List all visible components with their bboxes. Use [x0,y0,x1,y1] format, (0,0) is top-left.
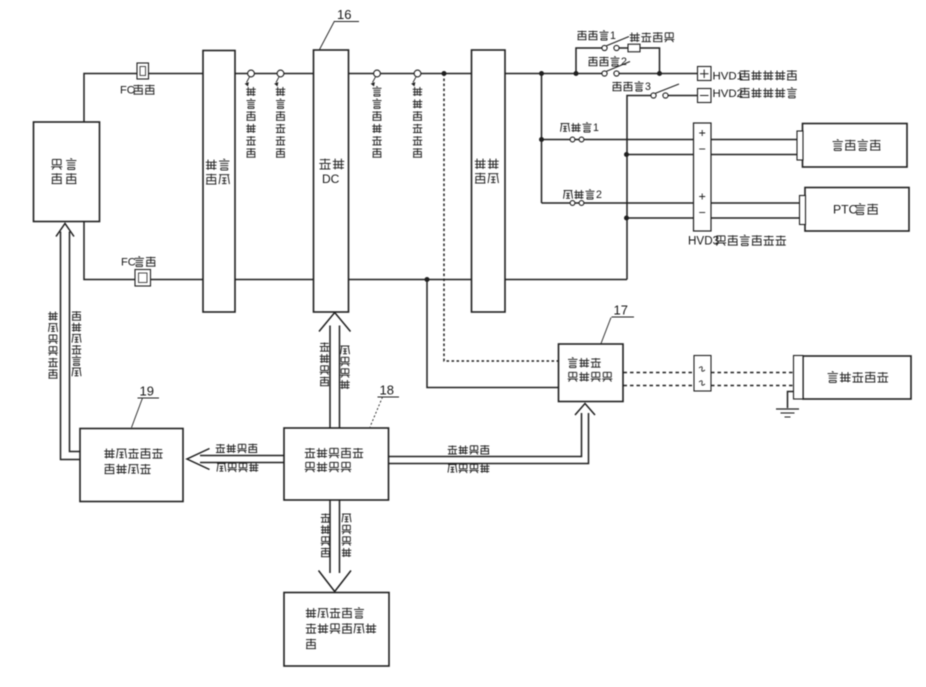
label 继电器2 [589,56,628,68]
relay K2 contact [602,62,630,77]
LV supply arrow control module to insulation module [187,449,284,470]
label 17 leader [601,318,611,344]
svg-text:HVD2: HVD2 [713,88,744,100]
vertical label 输入电流检测 [276,87,286,157]
svg-text:PTC: PTC [833,202,858,216]
wire motor connector to motor phase A (dashed) [711,372,793,374]
output filter label 输出滤波 [475,159,499,184]
FC negative connector [135,270,151,287]
FC positive connector [137,63,149,79]
LV supply arrow control module to compressor controller [389,404,596,464]
svg-text:16: 16 [337,7,351,22]
label 16 leader [320,21,335,50]
junction negative bus / compressor tap [425,277,430,282]
wire motor ground lead [788,392,795,409]
vertical label 输入电压检测 [246,87,256,157]
controller label 空压机控制模块 [568,358,613,382]
wire fuse F1 feed to water pump [542,139,799,141]
junction HVD3 feed / fuse F1 line [539,137,544,142]
HVD3 auxiliary connector [694,123,712,231]
HVD2 connector (-) [698,89,712,103]
junction negative riser / PTC return [624,216,629,221]
wire water pump return [627,154,799,156]
vertical label 低压配电 (boost arrow) [320,343,330,386]
label 19 [138,384,160,399]
wire HVD3 feed drop [541,74,543,204]
vertical label 母线电压检测 [372,87,382,158]
label FC负极 [121,257,155,269]
svg-text:19: 19 [140,384,154,399]
PTC supply box [805,188,909,232]
label 低压配电 (to U17) [448,445,490,454]
fuse F1 [570,137,584,142]
air compressor motor box [803,356,911,399]
label 通讯控制 (to U19) [217,463,259,472]
label 低压配电 (to U19) [216,444,258,453]
label 继电器1 [578,30,617,42]
label 熔断器1 [561,122,600,134]
wire negative tap to air-compressor controller [427,280,559,388]
PTC plug [800,196,806,225]
wire precharge branch [576,48,660,74]
label HVD2高压输出负 [713,88,797,100]
input current sense probe [275,70,284,86]
wire motor connector to motor phase B (dashed) [711,385,793,387]
fuse F2 [570,201,584,206]
water pump label 水泵供电 [833,140,881,151]
LV supply arrow control module to boost DC [319,313,351,429]
label FC正极 [120,85,154,97]
LV supply arrow control module to other LV equipment [319,500,352,592]
wire controller to motor connector phase A (dashed) [624,372,695,374]
svg-text:3: 3 [645,81,651,93]
air compressor controller box U17 [559,344,624,402]
label 16 [334,7,359,22]
svg-text:FC: FC [121,257,136,269]
label HVD3辅助供电接口 [688,234,786,247]
junction positive bus / precharge branch right [657,71,662,76]
wire positive tap to air-compressor controller (dashed) [444,74,559,362]
monitor label 绝缘检测与电堆巡检 [104,448,163,474]
vertical label 通讯控制 (down arrow) [342,514,352,557]
label HVD1高压输出正 [713,70,797,82]
output current sense probe [412,70,421,86]
label 17 [612,303,635,318]
label 熔断器2 [564,189,603,201]
relay K3 contact [651,84,679,98]
LV distribution control box U18 [284,428,389,500]
junction positive bus / compressor tap [442,71,447,76]
boost DC label 升压DC [319,159,344,186]
vertical label 绝缘阻抗检测 [48,312,58,379]
wire PTC return [627,217,802,219]
svg-text:2: 2 [621,56,627,68]
precharge resistor [628,44,640,52]
HVD1 connector (+) [698,67,712,81]
label 18 leader [370,397,383,427]
junction positive bus / HVD3 feed [539,71,544,76]
label 19 leader [132,398,143,428]
svg-text:18: 18 [380,383,394,398]
svg-text:DC: DC [322,172,340,186]
other LV equipment box [284,593,389,667]
other LV equipment label [306,608,377,649]
harness arrow stack-monitor to fuel cell [56,224,80,460]
motor plug [794,356,804,400]
wire negative riser to relay K3 [627,96,651,280]
water pump supply box [803,124,908,168]
input voltage sense probe [246,70,255,86]
label 通讯控制 (to U17) [448,464,490,473]
input filter box [203,51,235,313]
input filter label 输入滤波 [206,159,230,184]
bus voltage sense probe [372,70,381,86]
junction positive bus / precharge branch left [574,71,579,76]
motor phase connector [694,356,711,392]
vertical label 输出电流检测 [413,87,423,157]
water pump plug [797,131,803,160]
fuel cell box [34,122,100,222]
LV control label 低压配电与控制模块 [305,448,364,472]
PTC label PTC供电 [833,202,878,216]
label 继电器3 [613,81,652,93]
fuel cell label 燃料电池 [51,159,76,184]
wire fuse F2 feed to PTC [542,202,802,204]
svg-text:17: 17 [614,303,628,318]
junction negative riser / pump return [624,152,629,157]
wire positive bus after relay K2 to HVD1 [617,73,698,75]
wire positive bus (fuel cell top to relay K2) [84,74,604,123]
relay K1 contact [602,37,629,51]
wire negative bus (fuel cell bottom to riser) [84,222,627,280]
svg-text:1: 1 [593,122,599,134]
svg-text:FC: FC [120,85,135,97]
vertical label 通讯控制 (boost arrow) [340,346,350,389]
boost DC converter box U16 [314,50,349,312]
label 预充电阻 [630,32,675,42]
insulation & stack monitor box U19 [80,429,183,502]
vertical label 电堆巡检线束 [72,311,82,376]
svg-text:2: 2 [596,189,602,201]
wire relay K3 to HVD2 connector [668,95,698,97]
wire controller to motor connector phase B (dashed) [624,385,695,387]
svg-text:HVD1: HVD1 [713,70,744,82]
ground symbol [776,409,799,417]
vertical label 低压配电 (down arrow) [321,514,331,557]
output filter box [472,50,506,312]
svg-text:HVD3: HVD3 [688,234,719,247]
motor label 空压机电机 [828,372,889,383]
label 18 [378,383,400,398]
svg-text:1: 1 [610,30,616,42]
